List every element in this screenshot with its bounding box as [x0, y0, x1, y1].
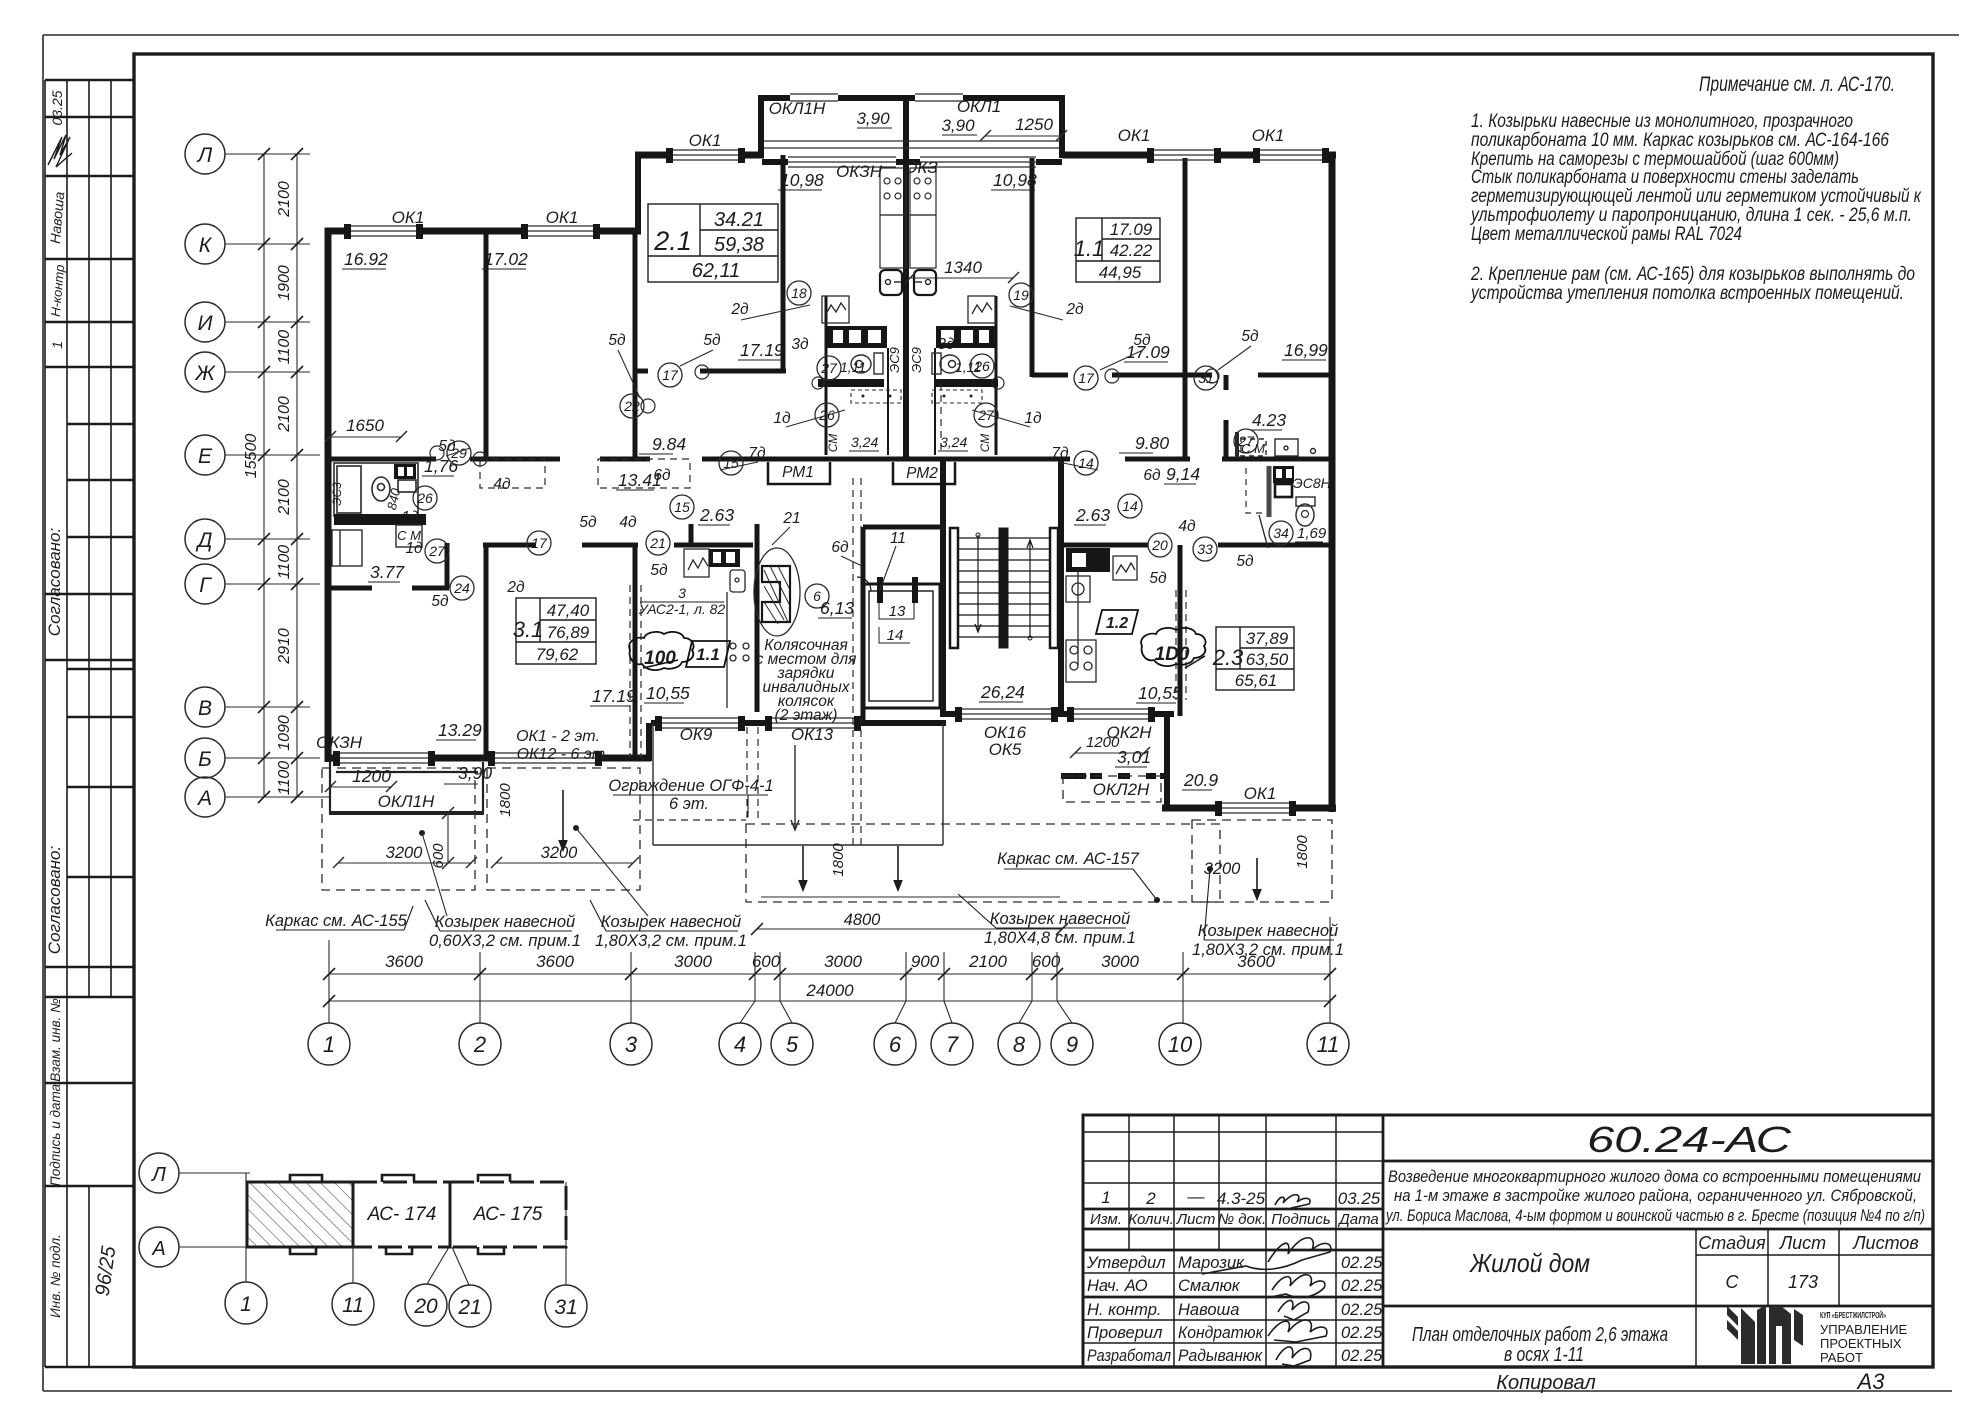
loggia glazing lines [764, 140, 1060, 142]
1650 dim [325, 431, 407, 442]
svg-text:2д: 2д [506, 579, 525, 596]
svg-text:3,90: 3,90 [941, 116, 975, 135]
room divider 17.02/2.1 [633, 231, 638, 461]
svg-text:3600: 3600 [536, 952, 574, 971]
svg-text:1.1: 1.1 [696, 645, 720, 664]
key plan axis lines [179, 1173, 566, 1285]
window ОКЗН bottom [336, 752, 432, 754]
room divider 16.92/17.02 [484, 231, 489, 461]
loggia left wall [758, 98, 764, 158]
key plan bottom circles [225, 1282, 587, 1327]
svg-text:Марозик: Марозик [1178, 1254, 1245, 1272]
svg-text:44,95: 44,95 [1099, 263, 1142, 282]
svg-text:(2 этаж): (2 этаж) [775, 707, 838, 724]
svg-text:Жилой дом: Жилой дом [1468, 1248, 1590, 1278]
loggia OKЛ2Н wall [1061, 773, 1086, 779]
small door leader circles [430, 365, 1219, 466]
svg-text:2.63: 2.63 [1075, 505, 1110, 525]
svg-text:3: 3 [625, 1032, 638, 1057]
svg-text:устройства утепления потолка в: устройства утепления потолка встроенных … [1469, 283, 1904, 304]
svg-text:27: 27 [977, 407, 995, 423]
top-left wall K axis [325, 228, 347, 235]
prefab bathroom unit band ЭС9 [827, 326, 996, 348]
cloud stamp 100 left [629, 632, 693, 670]
svg-text:1100: 1100 [276, 761, 293, 796]
svg-text:Г: Г [199, 574, 212, 597]
window OK1 16.92 [347, 225, 420, 227]
axis circles Л..А [185, 134, 225, 817]
svg-text:Инв. № подл.: Инв. № подл. [48, 1234, 63, 1318]
svg-text:1д: 1д [773, 410, 791, 427]
window band piers under loggia [762, 159, 788, 165]
svg-text:173: 173 [1788, 1272, 1818, 1292]
svg-text:1,80Х3,2 см. прим.1: 1,80Х3,2 см. прим.1 [1192, 941, 1344, 959]
svg-text:ОК1: ОК1 [392, 208, 425, 227]
top wall right section [1062, 152, 1150, 159]
apartment table 2.1 [648, 204, 778, 282]
svg-text:ОК13: ОК13 [791, 725, 834, 744]
svg-text:37,89: 37,89 [1246, 629, 1289, 648]
svg-text:3д: 3д [937, 336, 955, 353]
left band wall СМ [334, 514, 426, 525]
title block outer [1083, 1115, 1933, 1367]
svg-text:АС- 175: АС- 175 [473, 1204, 543, 1225]
svg-text:1: 1 [323, 1032, 335, 1057]
tag 1.2 parallelogram [1096, 610, 1138, 634]
svg-text:19: 19 [1013, 287, 1029, 303]
svg-text:5д: 5д [650, 562, 668, 579]
svg-text:ОК1: ОК1 [1244, 784, 1277, 803]
svg-text:Н. контр.: Н. контр. [1087, 1301, 1161, 1319]
svg-text:2. Крепление рам (см. АС-165): 2. Крепление рам (см. АС-165) для козырь… [1470, 264, 1915, 285]
project description [1385, 1167, 1925, 1225]
svg-text:13.29: 13.29 [438, 720, 482, 740]
svg-text:65,61: 65,61 [1235, 671, 1278, 690]
svg-text:2.63: 2.63 [699, 505, 734, 525]
left outer wall [325, 228, 332, 762]
svg-text:Лист: Лист [1176, 1211, 1216, 1228]
svg-text:АС- 174: АС- 174 [367, 1204, 437, 1225]
entrance wall [651, 720, 658, 726]
svg-text:Изм.: Изм. [1090, 1211, 1122, 1228]
right bathroom 4.23 fixtures [1237, 432, 1316, 458]
svg-text:1: 1 [1101, 1188, 1110, 1207]
window OK2H [1070, 708, 1152, 710]
svg-text:ОКЛ1Н: ОКЛ1Н [769, 99, 826, 118]
svg-text:И: И [197, 312, 213, 335]
svg-text:16.92: 16.92 [344, 249, 388, 269]
svg-text:16,99: 16,99 [1284, 340, 1328, 360]
window OK13 [768, 717, 858, 719]
svg-text:А3: А3 [1856, 1369, 1886, 1394]
svg-text:1,11: 1,11 [840, 359, 866, 375]
svg-text:ЭС9: ЭС9 [909, 347, 924, 373]
1.1 bottom wall [1032, 373, 1068, 378]
svg-text:27: 27 [820, 360, 838, 376]
svg-text:ОК2Н: ОК2Н [1107, 723, 1153, 742]
svg-text:Кондратюк: Кондратюк [1178, 1324, 1264, 1342]
svg-text:герметизирующющей лентой или г: герметизирующющей лентой или герметиком … [1471, 186, 1922, 207]
svg-text:ОК5: ОК5 [989, 740, 1022, 759]
svg-text:21: 21 [457, 1296, 481, 1319]
bottom left wall Б axis [325, 755, 336, 762]
koljasochnaja kitchenette [684, 548, 800, 708]
svg-text:УАС2-1, л. 82: УАС2-1, л. 82 [638, 601, 726, 617]
svg-text:2910: 2910 [276, 628, 293, 665]
svg-text:02.25: 02.25 [1341, 1254, 1383, 1272]
svg-text:ОК12 - 6 эт.: ОК12 - 6 эт. [517, 746, 610, 763]
svg-text:6д: 6д [1143, 467, 1161, 484]
svg-text:21: 21 [649, 535, 666, 551]
svg-text:3000: 3000 [824, 952, 862, 971]
svg-text:1,69: 1,69 [1297, 525, 1327, 542]
1340 dim [905, 272, 1019, 283]
svg-text:1800: 1800 [1294, 835, 1311, 869]
svg-text:4.23: 4.23 [1252, 410, 1286, 430]
svg-text:Козырек навесной: Козырек навесной [990, 910, 1130, 928]
svg-text:№ док.: № док. [1218, 1211, 1266, 1228]
svg-text:9.80: 9.80 [1135, 433, 1169, 453]
kitchen 10.98 wall [1030, 158, 1035, 377]
svg-text:2100: 2100 [276, 479, 293, 516]
svg-text:59,38: 59,38 [714, 234, 764, 256]
kitchen counters upper [880, 168, 936, 268]
svg-text:1: 1 [49, 341, 65, 349]
svg-text:15500: 15500 [243, 434, 260, 479]
svg-text:24000: 24000 [805, 981, 854, 1000]
svg-text:Д: Д [196, 529, 213, 552]
stairwell [950, 528, 1058, 648]
svg-text:26: 26 [416, 490, 433, 506]
svg-text:А: А [196, 787, 212, 810]
title block grid [1083, 1115, 1933, 1367]
svg-text:15: 15 [674, 499, 690, 515]
svg-text:29: 29 [450, 445, 467, 461]
svg-text:Утвердил: Утвердил [1086, 1254, 1166, 1272]
svg-text:3,24: 3,24 [851, 434, 878, 450]
svg-text:Козырек навесной: Козырек навесной [1198, 922, 1338, 940]
revision header row [1090, 1211, 1379, 1228]
svg-text:7: 7 [946, 1032, 959, 1057]
svg-text:3,01: 3,01 [1117, 747, 1151, 767]
svg-text:900: 900 [911, 952, 940, 971]
svg-text:Возведение многоквартирного жи: Возведение многоквартирного жилого дома … [1388, 1167, 1921, 1186]
stair right wall [1058, 461, 1064, 717]
svg-text:03.25: 03.25 [49, 90, 65, 125]
svg-text:10,98: 10,98 [993, 170, 1037, 190]
svg-text:9,14: 9,14 [1166, 464, 1200, 484]
svg-text:4д: 4д [619, 514, 637, 531]
step wall x638 [635, 152, 641, 231]
svg-text:21: 21 [782, 510, 800, 527]
left bathroom ЭС3 [334, 463, 418, 516]
svg-text:1100: 1100 [276, 545, 293, 580]
svg-text:27: 27 [428, 543, 446, 559]
2.1 bottom wall [635, 369, 648, 374]
svg-text:Цвет металлической рамы RAL 70: Цвет металлической рамы RAL 7024 [1471, 224, 1742, 245]
svg-text:1200: 1200 [352, 766, 391, 786]
svg-text:К: К [199, 234, 213, 257]
door labels [401, 301, 1331, 610]
svg-text:0,60Х3,2 см. прим.1: 0,60Х3,2 см. прим.1 [429, 932, 581, 950]
svg-text:2.1: 2.1 [653, 226, 692, 256]
svg-text:4д: 4д [1178, 518, 1196, 535]
windows [336, 94, 1326, 813]
svg-text:3.77: 3.77 [370, 562, 405, 582]
svg-text:22: 22 [623, 398, 640, 414]
svg-text:Ж: Ж [194, 362, 216, 385]
svg-text:Колич.: Колич. [1128, 1211, 1174, 1228]
svg-text:Листов: Листов [1852, 1233, 1919, 1253]
svg-text:С: С [1726, 1272, 1740, 1292]
svg-text:Ограждение ОГФ-4-1: Ограждение ОГФ-4-1 [608, 777, 773, 795]
svg-text:33: 33 [1197, 541, 1213, 557]
svg-text:в осях 1-11: в осях 1-11 [1504, 1344, 1584, 1366]
svg-text:11: 11 [342, 1294, 364, 1317]
svg-text:1650: 1650 [346, 416, 384, 435]
key plan notches [290, 1175, 510, 1254]
svg-text:3200: 3200 [386, 844, 424, 862]
wall y588 left [325, 586, 372, 591]
svg-text:2100: 2100 [276, 181, 293, 218]
svg-text:Проверил: Проверил [1087, 1324, 1162, 1342]
bottom dim lines [329, 917, 1330, 1023]
svg-text:9.84: 9.84 [652, 434, 686, 454]
bottom dim ticks [323, 968, 1336, 1007]
vertical dimension labels [243, 181, 293, 795]
svg-text:3.1: 3.1 [513, 617, 544, 642]
window band ОКЗН [788, 156, 896, 158]
svg-text:47,40: 47,40 [547, 601, 590, 620]
svg-text:4800: 4800 [844, 911, 882, 929]
svg-text:ультрофиолету и паропроницанию: ультрофиолету и паропроницанию, длина 1 … [1469, 205, 1912, 226]
svg-text:3000: 3000 [674, 952, 712, 971]
svg-text:1: 1 [240, 1293, 252, 1316]
fridge squiggle boxes [822, 296, 995, 323]
svg-text:34: 34 [1273, 525, 1289, 541]
key plan axis circle Л [139, 1153, 179, 1193]
svg-text:76,89: 76,89 [547, 623, 590, 642]
svg-text:3: 3 [678, 585, 686, 601]
svg-text:5д: 5д [703, 332, 721, 349]
svg-text:ОК1: ОК1 [689, 131, 722, 150]
svg-text:УПРАВЛЕНИЕ: УПРАВЛЕНИЕ [1820, 1322, 1908, 1337]
svg-text:60.24-АС: 60.24-АС [1587, 1119, 1792, 1160]
kitchen sinks [880, 270, 936, 295]
bath 1д walls [818, 379, 998, 387]
svg-text:1100: 1100 [276, 330, 293, 365]
wall x1167 [1164, 714, 1170, 808]
svg-text:2100: 2100 [276, 396, 293, 433]
svg-text:СМ: СМ [978, 434, 992, 453]
svg-text:ОК1: ОК1 [546, 208, 579, 227]
svg-text:Согласовано:: Согласовано: [45, 528, 64, 637]
underlines for area labels [342, 190, 1326, 790]
svg-text:27: 27 [1237, 433, 1255, 449]
svg-text:на 1-м этаже в застройке жилог: на 1-м этаже в застройке жилого района, … [1394, 1186, 1917, 1205]
ЭС8Н shaft and toilet [1246, 466, 1315, 548]
top window labels [392, 97, 1285, 227]
signer rows [1086, 1254, 1383, 1365]
svg-text:ЭС3: ЭС3 [330, 482, 344, 506]
svg-text:02.25: 02.25 [1341, 1277, 1383, 1295]
bottom window labels [316, 723, 1276, 811]
tag 1.1 parallelogram [686, 641, 730, 667]
svg-text:6: 6 [813, 588, 821, 604]
svg-text:РМ1: РМ1 [782, 464, 814, 481]
svg-text:8: 8 [1013, 1032, 1026, 1057]
wall x649 bottom [646, 723, 652, 761]
svg-text:ЭС9: ЭС9 [887, 347, 902, 373]
1200 dim bottom left [325, 781, 648, 916]
stair left wall [940, 461, 946, 717]
svg-text:1д: 1д [1024, 410, 1042, 427]
svg-text:А: А [151, 1238, 165, 1260]
svg-text:Нач. АО: Нач. АО [1087, 1277, 1148, 1295]
vertical axis chain lines [225, 154, 330, 797]
svg-text:Навоша: Навоша [1178, 1301, 1239, 1319]
interior walls [325, 155, 1332, 760]
cloud stamp 1D0 right [1141, 628, 1205, 668]
svg-text:17: 17 [531, 535, 548, 551]
svg-text:СМ: СМ [826, 434, 840, 453]
svg-text:3д: 3д [791, 336, 809, 353]
svg-text:3000: 3000 [1101, 952, 1139, 971]
kitchen 1.2 fixtures [1066, 548, 1137, 682]
svg-text:10: 10 [1168, 1032, 1193, 1057]
svg-text:1340: 1340 [944, 258, 982, 277]
svg-text:1900: 1900 [276, 265, 293, 301]
svg-text:17: 17 [662, 367, 679, 383]
leader lines [446, 305, 1251, 590]
svg-text:5д: 5д [431, 593, 449, 610]
svg-text:Л: Л [196, 144, 213, 167]
key plan hatched block [247, 1182, 353, 1247]
svg-text:17: 17 [1078, 370, 1095, 386]
loggia right wall [1059, 98, 1065, 158]
svg-text:Примечание см. л. АС-170.: Примечание см. л. АС-170. [1699, 73, 1895, 96]
top wall 2.1 room [635, 152, 669, 159]
svg-text:4.3-25: 4.3-25 [1217, 1189, 1266, 1208]
svg-text:42.22: 42.22 [1110, 241, 1153, 260]
central party wall [903, 98, 909, 461]
key plan axis circle А [139, 1227, 179, 1267]
svg-text:4: 4 [734, 1032, 746, 1057]
svg-text:Радыванюк: Радыванюк [1178, 1347, 1263, 1365]
svg-text:17.19: 17.19 [740, 340, 784, 360]
svg-text:03.25: 03.25 [1338, 1189, 1381, 1208]
window OK1 bottom right [1218, 802, 1293, 804]
svg-text:9: 9 [1066, 1032, 1078, 1057]
room area labels underlined [344, 170, 1328, 790]
1250 dim [980, 130, 1067, 141]
svg-text:10,55: 10,55 [646, 683, 690, 703]
svg-text:С М: С М [397, 528, 421, 543]
svg-text:ПРОЕКТНЫХ: ПРОЕКТНЫХ [1820, 1336, 1902, 1351]
signature squiggle [48, 135, 72, 167]
svg-text:ОКЗН: ОКЗН [316, 733, 363, 752]
svg-text:Смалюк: Смалюк [1178, 1277, 1241, 1295]
svg-text:Б: Б [198, 748, 212, 771]
window jambs [333, 148, 1329, 816]
svg-text:Копировал: Копировал [1496, 1372, 1595, 1394]
svg-text:ОКЛ2Н: ОКЛ2Н [1093, 780, 1150, 799]
canopy arrows [559, 790, 1261, 899]
koljasochnaja top wall [674, 543, 753, 548]
svg-text:—: — [1187, 1187, 1206, 1206]
svg-text:6: 6 [889, 1032, 902, 1057]
axis ticks [258, 148, 303, 803]
svg-text:Л: Л [150, 1164, 166, 1186]
svg-text:Каркас см. АС-155: Каркас см. АС-155 [265, 912, 407, 930]
svg-text:6д: 6д [831, 539, 849, 556]
key plan block АС-175 [450, 1182, 566, 1247]
svg-text:20: 20 [413, 1295, 438, 1318]
svg-text:34.21: 34.21 [714, 209, 764, 231]
svg-text:1090: 1090 [276, 715, 293, 751]
svg-text:Лист: Лист [1779, 1233, 1826, 1253]
window OK1 16.99 [1256, 149, 1326, 151]
1.1/16.99 divider [1183, 158, 1188, 461]
svg-text:4д: 4д [493, 476, 511, 493]
elevator [857, 577, 940, 708]
svg-text:1,80Х4,8 см. прим.1: 1,80Х4,8 см. прим.1 [984, 929, 1136, 947]
left loggia ОКЛ1Н [329, 762, 484, 813]
revision row values [1101, 1187, 1381, 1208]
svg-text:1800: 1800 [830, 843, 847, 877]
4800 dim line [751, 897, 1068, 935]
sidebar table grid [45, 80, 111, 1367]
svg-text:17.02: 17.02 [484, 249, 528, 269]
svg-text:6 эт.: 6 эт. [669, 795, 709, 813]
svg-text:2: 2 [473, 1032, 486, 1057]
svg-text:5д: 5д [1149, 570, 1167, 587]
svg-text:Взам. инв. №: Взам. инв. № [48, 998, 63, 1082]
svg-text:02.25: 02.25 [1341, 1324, 1383, 1342]
svg-text:ОКЛ1: ОКЛ1 [957, 97, 1001, 116]
svg-text:Каркас см. АС-157: Каркас см. АС-157 [997, 850, 1139, 868]
svg-text:ОК9: ОК9 [680, 725, 713, 744]
svg-text:1.2: 1.2 [1106, 615, 1128, 632]
svg-text:62,11: 62,11 [692, 260, 741, 282]
window OK1 1.1 [1150, 149, 1218, 151]
svg-text:11: 11 [1317, 1032, 1340, 1057]
svg-text:26: 26 [973, 358, 990, 374]
stage cells [1698, 1233, 1918, 1292]
svg-text:600: 600 [430, 843, 447, 869]
svg-text:ОКЗН: ОКЗН [836, 162, 883, 181]
svg-text:3,24: 3,24 [940, 434, 967, 450]
window band ОКЗ [920, 156, 1036, 158]
svg-text:План отделочных работ 2,6 этаж: План отделочных работ 2,6 этажа [1412, 1324, 1668, 1346]
svg-text:Подпись и дата: Подпись и дата [48, 1083, 63, 1186]
apartment table 3.1 [516, 598, 596, 664]
svg-text:11: 11 [890, 530, 906, 547]
svg-text:Стык поликарбоната и поверхнос: Стык поликарбоната и поверхности стены з… [1471, 167, 1859, 188]
svg-text:3,90: 3,90 [458, 763, 492, 783]
apartment table 1.1 [1076, 218, 1160, 282]
company logo mark [1727, 1305, 1803, 1364]
right outer wall [1329, 152, 1336, 812]
svg-text:20.9: 20.9 [1183, 770, 1218, 790]
svg-text:600: 600 [1032, 952, 1061, 971]
toilets middle [851, 353, 960, 374]
svg-text:2д: 2д [1065, 301, 1084, 318]
svg-text:10,55: 10,55 [1138, 683, 1182, 703]
svg-text:3600: 3600 [385, 952, 423, 971]
svg-text:1,80Х3,2 см. прим.1: 1,80Х3,2 см. прим.1 [595, 932, 747, 950]
svg-text:20: 20 [1151, 537, 1168, 553]
